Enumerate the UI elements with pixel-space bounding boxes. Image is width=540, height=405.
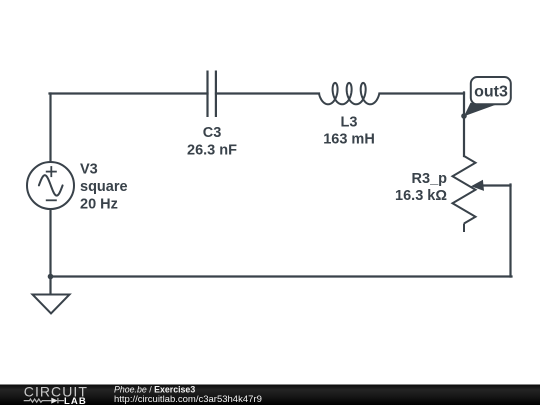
svg-text:26.3 nF: 26.3 nF [187,143,237,159]
node dot out3 [461,113,467,119]
node out3 flag [464,77,511,116]
label L3 value [323,114,375,147]
label C3 value [187,125,237,159]
svg-text:out3: out3 [474,84,508,101]
wire top-left vertical (V3 top to top rail) [49,94,51,163]
label R3_p value [395,171,447,204]
R3_p bottom stub [463,224,465,233]
ground [33,295,70,314]
V3 minus sign [46,199,57,201]
svg-text:square: square [80,179,128,195]
wire top rail left segment [50,92,208,94]
wire top rail right segment (L3 to corner) [380,92,465,94]
svg-text:LAB: LAB [64,396,87,405]
voltage source V3 [27,162,74,209]
svg-text:L3: L3 [341,114,358,130]
potentiometer R3_p zigzag [453,156,476,232]
wire bottom rail [51,275,512,277]
logo wire glyph: dash, resistor zigzag, diode, line [24,398,64,403]
V3 sine wave [39,175,63,195]
inductor L3 [319,83,379,104]
svg-text:20 Hz: 20 Hz [80,196,118,212]
svg-text:http://circuitlab.com/c3ar53h4: http://circuitlab.com/c3ar53h4k47r9 [114,394,262,405]
svg-text:R3_p: R3_p [412,171,448,187]
svg-text:16.3 kΩ: 16.3 kΩ [395,188,447,204]
label V3 value [80,162,128,213]
svg-text:C3: C3 [203,125,222,141]
wire wiper horizontal [482,184,511,186]
capacitor C3 [208,71,216,118]
wire bottom-left vertical (V3 bottom to ground) [49,209,51,295]
wire right vertical (corner to R3_p top) [463,93,465,157]
R3_p wiper arrowhead [471,180,484,191]
svg-text:V3: V3 [80,162,98,178]
svg-text:163 mH: 163 mH [323,132,375,148]
wire top rail middle segment (C3 to L3) [216,92,319,94]
node dot ground junction [48,274,54,280]
svg-text:Phoe.be / Exercise3: Phoe.be / Exercise3 [114,384,195,394]
wire wiper vertical down [509,185,511,277]
V3 plus sign [46,166,57,177]
logo diode triangle [51,398,57,404]
